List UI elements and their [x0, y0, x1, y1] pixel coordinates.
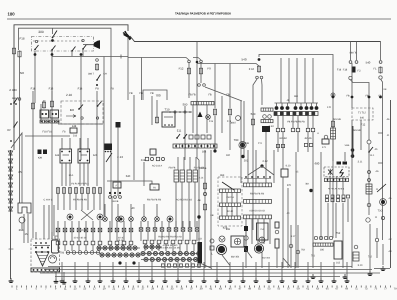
wire 301 stems: [178, 157, 196, 170]
bus line 2: [44, 269, 372, 271]
connector strip K2: [50, 120, 59, 123]
label A6: [376, 170, 380, 173]
plug wire: [83, 44, 88, 46]
terminal 291b: [289, 244, 293, 248]
terminal number strip: [12, 286, 397, 291]
label RO AO row: [158, 236, 182, 239]
svg-text:1В3: 1В3: [220, 174, 225, 177]
junction tick bus15: [120, 55, 122, 59]
svg-text:540: 540: [126, 175, 131, 178]
connector bar under box: [325, 178, 349, 181]
grid connector bar: [274, 112, 318, 116]
terminal 298c: [296, 250, 300, 254]
row 183 c: [220, 216, 241, 219]
wire col241: [240, 101, 242, 183]
ground battery: [54, 279, 67, 285]
label F18 333: [337, 69, 342, 72]
svg-text:ЧМБ: ЧМБ: [345, 144, 350, 147]
label 640: [360, 117, 365, 120]
label 9.10: [286, 165, 291, 168]
label fuse row tags: [71, 183, 89, 186]
dark lamp b: [167, 216, 173, 222]
dark pair 39: [38, 150, 48, 155]
wire fan left: [248, 166, 262, 175]
svg-text:180: 180: [8, 12, 16, 17]
wire main feed bus 30: [130, 36, 381, 42]
terminal f: [96, 117, 98, 119]
svg-text:751: 751: [311, 255, 316, 258]
label 625: [93, 154, 98, 157]
wire horn down: [21, 223, 23, 229]
svg-text:FB FB: FB FB: [200, 167, 207, 170]
dashed box T12: [352, 108, 373, 120]
fuse f52: [50, 100, 53, 107]
label T10: [165, 108, 170, 112]
dark dot bl: [118, 261, 135, 264]
ladder a: [174, 170, 185, 182]
stack97 fuse: [95, 63, 98, 70]
ladder 369: [366, 184, 372, 194]
svg-text:25: 25: [18, 170, 22, 174]
motor M1: [219, 236, 225, 242]
svg-text:790: 790: [234, 138, 239, 142]
wire col44: [43, 232, 45, 239]
wire band verticals: [58, 232, 197, 241]
wire link h136: [25, 135, 70, 137]
row mid2: [244, 200, 272, 204]
dark triangle: [198, 112, 203, 118]
wire left low: [10, 150, 12, 279]
label 310: [358, 264, 363, 267]
dashed switch-assembly box: [32, 37, 94, 52]
wire col246 low: [245, 230, 247, 268]
wire col380: [381, 79, 383, 240]
diode D8: [8, 207, 12, 211]
svg-text:436: 436: [245, 142, 250, 145]
dark node 199: [197, 215, 200, 218]
lamp L2: [236, 116, 241, 121]
row mid3: [244, 215, 272, 219]
dashed box 183: [218, 177, 242, 226]
dark lamp c: [67, 214, 73, 220]
svg-text:FB: FB: [150, 92, 154, 95]
label F18 b: [78, 88, 83, 91]
motor dark 790: [239, 141, 246, 148]
svg-text:4Ю 484: 4Ю 484: [116, 244, 124, 247]
wire grid verticals low: [278, 116, 313, 152]
label AO stack: [198, 238, 202, 241]
svg-text:F1A: F1A: [69, 174, 74, 177]
svg-text:218: 218: [73, 135, 78, 138]
label F8 d: [110, 88, 114, 91]
wire right frame: [390, 100, 392, 268]
dashed alternator box: [31, 239, 60, 272]
tick r2: [378, 162, 383, 164]
relay K1: [40, 110, 49, 118]
label FB pair low: [200, 167, 207, 170]
wire col253: [253, 79, 257, 230]
diode D5: [8, 183, 12, 187]
svg-text:2.13: 2.13: [268, 125, 274, 128]
label L: [211, 253, 213, 256]
label 40 lamps: [132, 207, 135, 210]
fuse f380: [379, 66, 382, 73]
junction dots: [109, 192, 121, 194]
label T12: [358, 112, 366, 115]
wire left frame lower: [13, 55, 15, 150]
alternator bottom bar: [31, 268, 60, 272]
svg-text:382 354: 382 354: [262, 257, 271, 260]
pin row 2.12: [244, 176, 271, 178]
label 40 grid: [294, 95, 298, 98]
switch S4: [13, 122, 17, 128]
circle 368: [366, 218, 370, 222]
circle 377: [375, 238, 378, 241]
svg-text:ЮВ: ЮВ: [38, 157, 42, 160]
label 752b: [301, 249, 306, 252]
label F8 c: [95, 88, 99, 91]
svg-text:304: 304: [202, 151, 207, 154]
label 40 row: [74, 237, 87, 240]
connector strip K1: [40, 120, 49, 123]
fuse f253m: [251, 118, 254, 125]
label A6 b: [387, 118, 391, 121]
wire col296: [295, 152, 297, 268]
switch S2c: [71, 47, 75, 52]
label FB c: [150, 92, 154, 95]
fuse f33: [31, 102, 34, 109]
small box 148: [70, 128, 77, 133]
chain row C2 lamps: [97, 246, 140, 250]
svg-text:970: 970: [287, 184, 292, 187]
box 163: [334, 241, 342, 265]
dashed diode chain: [10, 150, 12, 205]
wire col291: [290, 225, 292, 268]
wire col185: [184, 106, 186, 160]
svg-text:163: 163: [336, 262, 341, 265]
svg-text:F9: F9: [207, 67, 211, 71]
terminal 369d: [368, 179, 371, 182]
svg-text:680: 680: [315, 162, 320, 166]
svg-text:3.11: 3.11: [358, 161, 363, 164]
fuse bank row: [56, 187, 101, 194]
svg-text:3.17: 3.17: [291, 235, 296, 238]
stack97 switch: [96, 75, 100, 81]
label F9: [207, 67, 211, 71]
label F9b: [258, 142, 262, 145]
dark node 262: [260, 164, 263, 167]
svg-text:4B: 4B: [198, 199, 201, 202]
svg-text:182: 182: [226, 154, 231, 157]
connector row A: [56, 228, 102, 232]
svg-text:829: 829: [223, 227, 228, 230]
svg-text:F 10: F 10: [249, 68, 255, 71]
box switches dashed: [324, 167, 349, 177]
label 382354b: [262, 257, 271, 260]
label 414 row: [160, 247, 180, 250]
svg-text:79: 79: [394, 288, 397, 291]
wire alt up: [36, 205, 54, 239]
label 3U: [305, 183, 309, 186]
page header title: [175, 11, 231, 15]
gnd 313: [311, 274, 316, 279]
wire col222: [221, 96, 223, 133]
label NO: [20, 71, 25, 75]
wire col193: [192, 105, 194, 133]
terminal 356: [355, 61, 358, 64]
svg-text:F18: F18: [31, 88, 36, 91]
label 230: [81, 229, 87, 232]
label FB b: [139, 92, 143, 95]
svg-text:14.1: 14.1: [370, 154, 375, 157]
column top contacts: [332, 96, 382, 99]
contact blob b: [51, 53, 54, 56]
wire F12 col: [188, 62, 190, 98]
svg-text:15: 15: [25, 233, 28, 236]
label A040: [9, 88, 17, 92]
label 148: [72, 125, 77, 128]
wire col41: [40, 104, 42, 122]
black conn 262: [262, 126, 270, 132]
diode D1: [8, 151, 12, 155]
svg-text:471: 471: [322, 146, 327, 149]
label 180b: [320, 249, 325, 252]
ground left main: [9, 278, 14, 283]
wire diag F9: [205, 87, 242, 101]
label 382354: [231, 256, 240, 259]
terminal 333b: [331, 93, 335, 97]
connector plug P1: [87, 40, 100, 49]
label OP: [7, 129, 11, 132]
battery cell dots: [33, 242, 50, 248]
label 40 rt: [287, 212, 290, 215]
label F8 five: [147, 199, 162, 202]
label F8F8 m: [169, 167, 176, 170]
label F12 r: [361, 124, 366, 127]
wire switch col b: [51, 51, 53, 103]
svg-text:FB: FB: [129, 92, 133, 95]
svg-text:T10: T10: [165, 108, 170, 112]
fuse c205: [203, 182, 206, 189]
arrow contact: [66, 115, 76, 118]
terminals under: [109, 196, 122, 199]
label 1B2: [226, 154, 231, 157]
svg-text:FB FB FB FB: FB FB FB FB: [147, 199, 162, 202]
svg-text:625: 625: [93, 154, 98, 157]
relay K4 box: [78, 149, 90, 163]
dark lamp d: [97, 214, 103, 220]
label 680: [315, 162, 320, 166]
svg-text:F18: F18: [343, 69, 348, 72]
tick strip right end: [374, 268, 390, 270]
terminal 350b: [349, 76, 352, 79]
wire col352: [351, 63, 353, 108]
circle 369 low: [367, 203, 371, 207]
wire fuse stems: [58, 194, 100, 210]
wire col197: [196, 42, 199, 161]
wire band stems: [145, 244, 194, 251]
connector bar 262b: [261, 120, 273, 123]
wire col144: [143, 162, 145, 186]
label FB 211: [210, 214, 213, 217]
svg-text:FB: FB: [226, 94, 230, 97]
label HBFB: [350, 52, 357, 55]
fuse on left frame: [12, 47, 15, 54]
label 213g: [268, 125, 274, 128]
wire col104b: [103, 57, 105, 217]
wire stub356: [356, 42, 358, 61]
fuse F18b: [18, 50, 21, 57]
label 471: [322, 146, 327, 149]
small stack 246: [244, 226, 248, 252]
fuse f230: [228, 108, 231, 115]
label F8 s2: [226, 94, 230, 97]
label 384: [230, 122, 236, 125]
label UB: [38, 157, 42, 160]
wire col207: [206, 105, 208, 133]
dark node 243: [241, 155, 244, 158]
svg-text:180: 180: [320, 249, 325, 252]
wire relay up stems: [62, 138, 88, 149]
bracket 780: [143, 90, 167, 100]
svg-text:AO AO AO AO: AO AO AO AO: [249, 210, 265, 213]
connector bar 262a: [261, 108, 273, 111]
terminal 350: [349, 61, 352, 64]
label 40 a: [43, 100, 46, 103]
svg-text:NO: NO: [20, 71, 25, 75]
dark circle right: [380, 199, 387, 206]
chain row C3 lamps: [100, 253, 140, 257]
svg-text:MS M6: MS M6: [353, 129, 361, 132]
ground stems: [62, 262, 347, 278]
label 41 r: [387, 134, 390, 137]
wire col131: [127, 37, 129, 100]
switch S10 diag: [222, 182, 234, 190]
wire col97: [96, 91, 98, 186]
diode D6: [8, 191, 12, 195]
alternator terminals: [35, 251, 49, 253]
svg-text:4Ю: 4Ю: [294, 95, 298, 98]
wire col24: [23, 214, 25, 243]
svg-text:40: 40: [132, 207, 135, 210]
label 1B3: [220, 174, 225, 177]
relay K2: [50, 110, 59, 118]
relay K3 box: [60, 149, 72, 163]
terminal T19: [18, 98, 21, 101]
svg-text:384Л: 384Л: [230, 122, 236, 125]
wire battery down: [56, 272, 64, 280]
dark lamp a: [118, 216, 124, 222]
label F16: [49, 88, 54, 91]
square 212: [210, 246, 214, 250]
regulator triangle: [36, 252, 49, 266]
label CH 104: [103, 73, 107, 76]
dark motor M2: [217, 245, 227, 255]
label 484: [118, 239, 125, 242]
label 388T: [88, 73, 95, 76]
wire col14 mid: [13, 105, 15, 150]
label F8 pair: [188, 94, 195, 97]
ladder b: [187, 170, 198, 182]
svg-text:AO RO RO AO: AO RO RO AO: [176, 199, 192, 202]
label 540 top: [241, 58, 246, 62]
wire col369b: [368, 144, 370, 215]
box 754: [257, 223, 269, 240]
contact blob a: [34, 53, 37, 56]
lamp pair 262: [263, 115, 272, 119]
wire col230: [229, 64, 231, 151]
label FB r1: [346, 95, 349, 98]
svg-text:FB FB FB FB: FB FB FB FB: [73, 199, 87, 202]
wire col205: [204, 150, 206, 268]
wire inner top frame: [19, 28, 112, 50]
horn bracket: [18, 203, 31, 213]
svg-text:634: 634: [55, 154, 60, 157]
fuse F12: [187, 67, 190, 74]
label T2O: [378, 210, 383, 213]
wire col28: [27, 214, 29, 243]
svg-text:FB FB FB FB: FB FB FB FB: [250, 193, 265, 196]
conn pair 680: [337, 162, 348, 165]
row mid1: [244, 183, 272, 187]
wire col111: [110, 40, 112, 196]
label A5: [389, 197, 393, 200]
wire col369: [368, 98, 370, 140]
label 859: [226, 228, 231, 231]
box 283: [281, 169, 288, 177]
label 65: [296, 171, 299, 174]
wire switch col c: [71, 52, 73, 56]
svg-text:9.10: 9.10: [286, 165, 291, 168]
svg-text:C H H C: C H H C: [44, 199, 53, 202]
fuse f44: [42, 101, 45, 108]
label MSM6: [333, 118, 341, 121]
svg-text:T1 T12: T1 T12: [358, 112, 366, 115]
svg-text:40 40 40 40: 40 40 40 40: [74, 237, 87, 240]
wire col361: [360, 120, 362, 150]
svg-text:F3 F4 F9 F3 F14: F3 F4 F9 F3 F14: [71, 183, 89, 186]
svg-text:298: 298: [19, 228, 24, 232]
stack97 term: [96, 59, 99, 62]
wire switch col d: [82, 50, 84, 56]
svg-text:FB: FB: [208, 94, 212, 97]
wire grid verticals: [281, 58, 313, 103]
ladder 356: [353, 252, 359, 261]
chain row C: [66, 251, 100, 255]
label F1: [373, 68, 377, 71]
glyph lightning: [340, 169, 343, 177]
label FB r2: [365, 95, 368, 98]
wire col157: [156, 100, 158, 118]
wire box col c: [342, 177, 344, 195]
wire outer top frame: [14, 25, 128, 55]
label 40 row2: [118, 237, 125, 240]
fuse F9: [199, 67, 202, 74]
switch S6: [97, 102, 102, 107]
label AORO: [176, 199, 192, 202]
label AB row: [304, 137, 312, 140]
dashed relay box: [61, 101, 103, 124]
svg-text:2.14: 2.14: [199, 177, 204, 180]
chain lamp row F1: [141, 251, 201, 255]
gnd 345: [343, 274, 348, 279]
F9 lower terms: [198, 84, 206, 87]
svg-text:F 9: F 9: [258, 142, 262, 145]
label 115 r: [375, 216, 378, 219]
label BO: [70, 108, 75, 112]
wire funnel a: [200, 247, 290, 269]
label AO four: [249, 210, 265, 213]
